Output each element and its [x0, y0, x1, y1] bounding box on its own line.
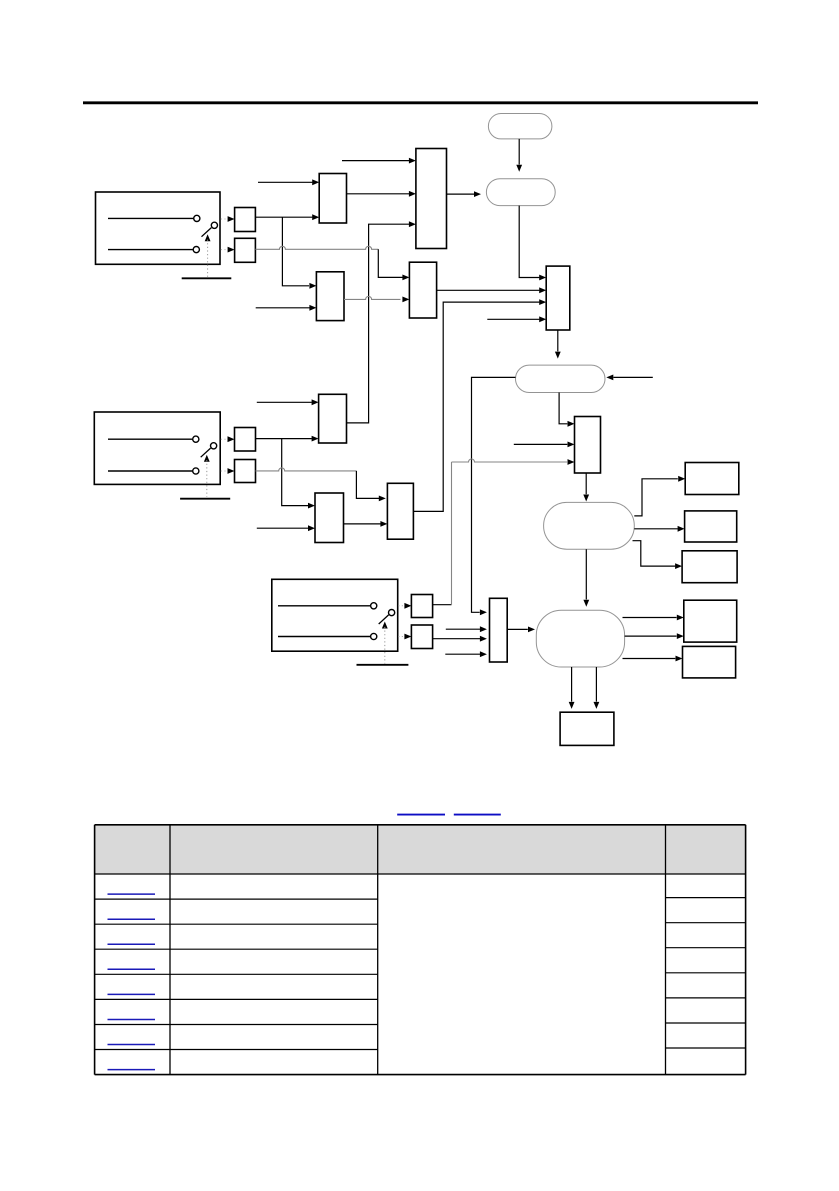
wire ST4 down-right to output box OB3 — [633, 541, 683, 569]
wire mux M4 to stadium ST5 — [507, 627, 535, 633]
wire ST5 bottom 2 to register box — [594, 667, 600, 709]
wire branch from S3 line down to PLL3 — [282, 439, 315, 509]
mux M2 — [575, 417, 601, 474]
OSC2 switch control dotted line — [206, 460, 208, 497]
wire C1 to mux M1 input 2 — [437, 287, 547, 293]
OSC1 pin line 1 — [108, 217, 193, 219]
gray wire into mux M2 input 3 with hop — [452, 459, 575, 465]
OSC1 control signal underline — [182, 277, 232, 279]
table row lines column 4 — [666, 898, 746, 1048]
table header bottom border — [95, 873, 746, 875]
arrow ST1 to ST2 — [516, 139, 522, 172]
divider square S2 — [235, 238, 256, 262]
wire free input to mux M2 input 2 — [514, 442, 575, 448]
output box OB2 — [685, 511, 737, 542]
table column divider 2 — [377, 825, 379, 1075]
stadium ST1 — [488, 114, 552, 139]
table column divider 3 — [665, 825, 667, 1075]
output box OB3 — [682, 551, 737, 583]
oscillator box OSC3 — [272, 579, 398, 651]
OSC3 switch control dotted line — [384, 627, 386, 664]
stadium ST2 — [486, 179, 555, 206]
OSC2 dotted output 1 with arrow into square S3 — [221, 436, 235, 442]
wire ST5 right 1 to output box OB4 — [623, 615, 684, 621]
table outer border — [95, 825, 746, 1075]
wire mux M1 down to stadium ST3 — [555, 330, 561, 359]
oscillator box OSC2 — [94, 412, 220, 484]
hyperlink underline left — [397, 814, 445, 816]
OSC3 pin terminal circle 1 — [371, 603, 377, 609]
mux M1 — [546, 266, 570, 330]
stadium ST5 — [536, 610, 624, 667]
block C1 — [409, 262, 436, 318]
wire ST4 right to output box OB2 — [634, 526, 684, 532]
OSC1 switch select arrow — [205, 234, 211, 241]
OSC2 dotted output 2 with arrow into square S4 — [221, 468, 235, 474]
OSC2 control signal underline — [180, 498, 230, 500]
OSC3 dotted output 2 with arrow into square S6 — [398, 634, 411, 640]
OSC2 pin terminal circle 1 — [193, 436, 199, 442]
wire free input to B1 lower — [256, 305, 317, 311]
wire branch from S1 line down to block B1 — [282, 217, 316, 289]
header horizontal rule — [83, 101, 758, 104]
wire free input to mux M4 input 4 — [445, 651, 487, 657]
wire corner down into mux M3 input 1 — [356, 471, 385, 501]
output box OB4 — [684, 600, 737, 642]
OSC1 switch pivot circle — [211, 222, 217, 228]
OSC2 switch lever — [201, 448, 211, 457]
output box OB1 — [685, 463, 739, 495]
wire S1 to PLL1 input — [255, 214, 319, 220]
output box OB5 — [683, 646, 736, 678]
OSC3 pin terminal circle 2 — [371, 633, 377, 639]
wire right input into ST3 — [606, 375, 653, 381]
mux M4 — [490, 598, 508, 662]
table cell hyperlink underlines column 1 — [108, 894, 156, 1070]
divider square S3 — [235, 428, 256, 452]
table column divider 1 — [169, 825, 171, 1075]
table row lines columns 1-2 — [95, 899, 378, 1049]
wire corner down into block C1 input 1 — [378, 249, 409, 280]
wire free input to mux M1 input 4 — [487, 316, 546, 322]
wire ST3 left down to mux M4 input 1 — [472, 377, 516, 615]
OSC2 pin line 1 — [108, 438, 192, 440]
gray wire from S2 with hops — [255, 246, 378, 249]
OSC3 switch lever — [379, 615, 389, 624]
OSC1 pin terminal circle 2 — [193, 247, 199, 253]
wire PLL1 to tall mux M0 — [347, 191, 416, 197]
wire free input to PLL3 lower — [257, 525, 315, 531]
block B1 — [316, 272, 344, 321]
wire S5 black segment — [433, 604, 452, 606]
OSC2 switch pivot circle — [211, 443, 217, 449]
OSC1 dotted output 2 with arrow into square S2 — [221, 247, 235, 253]
wire ST4 bottom to stadium ST5 — [583, 549, 589, 607]
mux M3 — [387, 483, 413, 539]
wire ST3 bottom to mux M2 input 1 — [559, 393, 574, 427]
block PLL1 — [319, 174, 346, 224]
wire S6 to mux M4 input 3 — [433, 636, 487, 642]
wire free input to PLL1 upper — [258, 179, 319, 185]
wire free input to PLL2 upper — [257, 399, 319, 405]
wire ST5 bottom 1 to register box — [569, 667, 575, 709]
wire mux M2 down to stadium ST4 — [583, 473, 589, 502]
block PLL3 — [315, 493, 344, 543]
register box below ST5 — [560, 712, 614, 745]
OSC1 pin terminal circle 1 — [194, 215, 200, 221]
OSC3 pin line 2 — [278, 636, 370, 638]
wire tall mux M0 to stadium ST2 — [447, 191, 482, 197]
wire PLL2 up to tall mux M0 lower input — [347, 221, 416, 423]
wire PLL3 to mux M3 input 2 — [344, 521, 388, 527]
oscillator box OSC1 — [96, 192, 221, 264]
gray wire from S4 with hop — [256, 468, 357, 471]
OSC1 switch lever — [202, 228, 212, 237]
stadium ST4 — [544, 502, 635, 549]
OSC1 pin line 2 — [108, 249, 193, 251]
OSC2 switch select arrow — [204, 455, 210, 462]
OSC3 pin line 1 — [278, 605, 370, 607]
OSC3 control signal underline — [357, 664, 409, 666]
hyperlink underline right — [454, 814, 501, 816]
stadium ST3 — [516, 365, 606, 392]
OSC3 switch pivot circle — [389, 610, 395, 616]
block PLL2 — [319, 394, 347, 443]
wire ST5 right 2 to output box OB4 — [625, 633, 684, 639]
divider square S5 — [411, 595, 432, 618]
wire S3 to PLL2 input — [256, 436, 319, 442]
divider square S4 — [235, 460, 256, 483]
gray wire S5 vertical riser — [451, 462, 453, 605]
divider square S1 — [235, 208, 256, 232]
OSC1 switch control dotted line — [207, 240, 209, 277]
gray wire B1 to C1 with hop — [344, 296, 409, 302]
OSC3 dotted output 1 with arrow into square S5 — [398, 603, 411, 609]
wire ST4 up-right to output box OB1 — [634, 476, 685, 516]
OSC3 switch select arrow — [382, 622, 388, 629]
wire free input to tall mux M0 upper — [342, 158, 416, 164]
divider square S6 — [411, 625, 432, 649]
OSC1 dotted output 1 with arrow into square S1 — [221, 216, 235, 222]
wire mux M3 up to mux M1 input 3 — [413, 299, 546, 511]
OSC2 pin terminal circle 2 — [193, 468, 199, 474]
tall mux M0 — [416, 149, 447, 249]
wire free input to mux M4 input 2 — [446, 626, 487, 632]
OSC2 pin line 2 — [108, 470, 192, 472]
wire ST5 right 3 to output box OB5 — [623, 656, 683, 662]
wire ST2 down to mux M1 input 1 — [519, 206, 546, 281]
table header row gray fill — [95, 825, 746, 874]
